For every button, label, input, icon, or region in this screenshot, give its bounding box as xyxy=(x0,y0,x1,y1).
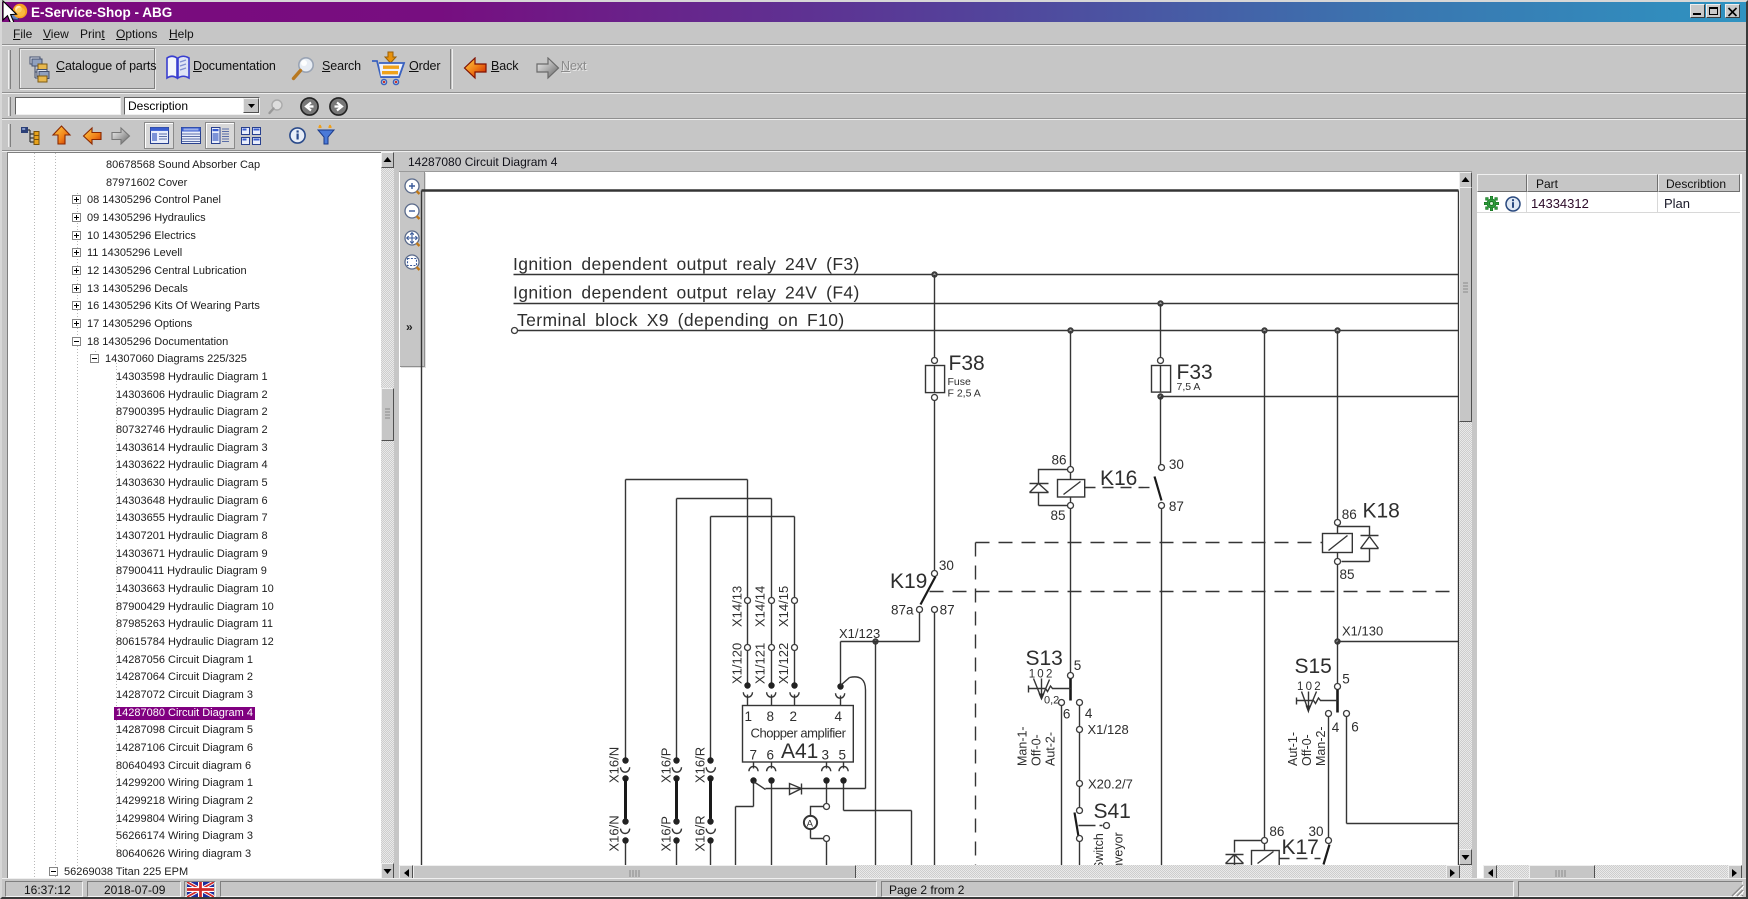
wire F33 output to right edge xyxy=(1161,396,1459,398)
relay coil K17 with suppressor diode xyxy=(1226,824,1319,866)
svg-text:K16: K16 xyxy=(1100,467,1137,490)
node junction F33 on F4 xyxy=(1157,300,1163,306)
connector X1/130 xyxy=(1334,624,1383,645)
svg-text:7: 7 xyxy=(750,748,758,763)
svg-text:Fuse: Fuse xyxy=(948,376,972,388)
svg-text:X1/130: X1/130 xyxy=(1342,624,1383,639)
wire K18 to X1/130 xyxy=(1337,565,1339,639)
mechanical link dashed vertical xyxy=(975,543,977,866)
svg-text:4: 4 xyxy=(1085,706,1093,721)
wire X1/128 to X20.2/7 xyxy=(1079,733,1081,781)
svg-text:X16/R: X16/R xyxy=(692,815,707,851)
wire F4 bus line xyxy=(514,303,1459,305)
left part tree panel xyxy=(7,152,381,879)
svg-text:8: 8 xyxy=(767,709,775,724)
toolbar row 2 xyxy=(2,94,1746,119)
connector X16/N lower xyxy=(607,815,630,851)
svg-text:2: 2 xyxy=(790,709,798,724)
wire F3 to F38 xyxy=(934,275,936,358)
search text input xyxy=(15,97,121,115)
svg-text:X1/122: X1/122 xyxy=(776,643,791,684)
wire X16/P down xyxy=(676,844,678,866)
svg-text:5: 5 xyxy=(839,748,847,763)
view buttons group xyxy=(144,122,174,149)
svg-text:S41: S41 xyxy=(1094,800,1131,823)
connector X1/121 xyxy=(753,643,775,684)
tree structure icon xyxy=(20,126,42,146)
svg-text:Off-0-: Off-0- xyxy=(1030,734,1044,766)
wire A41 pin5 net xyxy=(844,784,912,866)
svg-text:1: 1 xyxy=(1297,681,1303,693)
connector X1/120 xyxy=(729,643,750,684)
connector X16/P lower xyxy=(658,816,681,851)
info icon xyxy=(289,127,306,144)
switch S41 xyxy=(1075,800,1131,883)
connector plug into A41 xyxy=(767,682,776,705)
svg-text:4: 4 xyxy=(1332,720,1340,735)
connector plug A41 bottom pin xyxy=(822,762,831,784)
mechanical link dashed to K18 coil xyxy=(976,542,1323,544)
svg-text:6: 6 xyxy=(1063,707,1071,722)
nav circle fwd xyxy=(329,97,348,116)
diagram frame top border xyxy=(422,189,1459,192)
switch S15 xyxy=(1286,655,1359,766)
splitter xyxy=(394,152,399,879)
diagram horizontal scrollbar xyxy=(399,865,1472,881)
documentation icon xyxy=(165,54,191,82)
connector plug into A41 xyxy=(790,682,799,705)
svg-text:87: 87 xyxy=(1169,499,1184,514)
wire X1/130 to right edge xyxy=(1338,641,1459,643)
wire X9 to K16 coil xyxy=(1070,331,1072,467)
wire X16/P loop to A41 xyxy=(677,498,772,500)
wire K19 pin87 down xyxy=(934,613,936,866)
wire X16/N loop to A41 xyxy=(626,479,748,481)
wire S13 pin6 down xyxy=(1061,706,1063,866)
svg-text:X16/N: X16/N xyxy=(607,747,622,783)
svg-text:Off-0-: Off-0- xyxy=(1300,734,1314,766)
svg-text:Aut-2-: Aut-2- xyxy=(1044,732,1058,766)
wire A41 pin7 nets xyxy=(736,782,766,866)
diode D1 on pin7 line xyxy=(766,784,866,795)
filter funnel icon xyxy=(316,124,336,147)
fuse F38 xyxy=(926,352,985,401)
svg-text:K19: K19 xyxy=(890,570,927,593)
connector X14/13 xyxy=(729,586,750,627)
wire F33 to K16 contact xyxy=(1160,397,1162,465)
svg-text:0: 0 xyxy=(1306,681,1312,693)
connector plug A41 bottom pin xyxy=(839,762,848,784)
gear icon xyxy=(1484,196,1499,211)
white canvas xyxy=(399,172,1459,865)
connector plug A41 bottom pin xyxy=(767,762,776,784)
connector X16/R upper xyxy=(692,747,715,783)
wire S15 pin6 to right edge xyxy=(1347,717,1459,824)
svg-text:A41: A41 xyxy=(781,740,818,763)
wire X1/123 horizontal to K19 pin87a xyxy=(841,613,920,642)
svg-text:X16/N: X16/N xyxy=(607,815,622,851)
connector plug into A41 xyxy=(743,682,752,705)
svg-text:86: 86 xyxy=(1342,507,1357,522)
toolbar row 1 xyxy=(2,46,1746,93)
svg-text:0,2: 0,2 xyxy=(1044,695,1059,707)
svg-text:30: 30 xyxy=(939,558,954,573)
svg-text:X1/120: X1/120 xyxy=(729,643,744,684)
relay contact K17 xyxy=(1309,824,1332,865)
wire input X14/15 column xyxy=(794,517,796,683)
connector plug A41 pin4 xyxy=(836,678,850,706)
svg-text:85: 85 xyxy=(1051,508,1066,523)
connector X16/N upper xyxy=(607,747,630,783)
wire K16 contact down xyxy=(1161,509,1163,866)
terminal X9 left end xyxy=(512,328,518,334)
svg-text:Man-1-: Man-1- xyxy=(1016,726,1030,766)
menu bar xyxy=(2,22,1746,45)
svg-text:Ignition dependent output real: Ignition dependent output realy 24V (F3) xyxy=(513,254,860,274)
zoom tool strip xyxy=(400,172,425,367)
svg-text:30: 30 xyxy=(1169,457,1184,472)
mechanical link K16 dashed xyxy=(1085,487,1151,489)
fuse F33 xyxy=(1152,358,1213,394)
svg-text:K17: K17 xyxy=(1282,836,1319,859)
svg-text:1: 1 xyxy=(745,709,753,724)
connector X20.2/7 xyxy=(1077,777,1133,792)
next icon (disabled) xyxy=(535,57,560,81)
svg-text:0: 0 xyxy=(1037,669,1043,681)
svg-text:2: 2 xyxy=(1314,681,1320,693)
nav circle back xyxy=(300,192,600,342)
svg-text:X20.2/7: X20.2/7 xyxy=(1088,777,1133,792)
svg-text:86: 86 xyxy=(1052,453,1067,468)
circuit schematic canvas xyxy=(399,172,1459,865)
node junction K16-coil on X9 xyxy=(1067,327,1073,333)
relay contact K19 xyxy=(890,558,955,618)
diagram frame right border xyxy=(1458,191,1460,866)
wire X9 bus line xyxy=(518,330,1459,332)
node junction F38 on F3 xyxy=(931,271,937,277)
svg-text:7,5 A: 7,5 A xyxy=(1177,381,1201,393)
wire pin4 elbow to diode row xyxy=(850,677,866,789)
svg-text:30: 30 xyxy=(1309,824,1324,839)
wire A41 pin3 to ammeter xyxy=(826,784,828,804)
svg-text:X16/P: X16/P xyxy=(658,816,673,851)
wire S13 pin4 to X1/128 xyxy=(1079,706,1081,727)
connector X14/15 xyxy=(776,586,798,627)
diagram header strip xyxy=(399,152,1472,172)
tree scrollbar xyxy=(381,152,394,879)
op-amp A41 chopper amplifier xyxy=(743,706,854,764)
svg-text:F 2,5 A: F 2,5 A xyxy=(948,388,981,400)
connector X14/14 xyxy=(753,586,775,627)
svg-text:Aut-1-: Aut-1- xyxy=(1286,732,1300,766)
right panel h-scrollbar xyxy=(1483,865,1742,881)
wire X9 to K18 xyxy=(1337,331,1339,520)
node junction K18-coil on X9 xyxy=(1334,327,1340,333)
wire X16/N down xyxy=(625,844,627,866)
svg-text:6: 6 xyxy=(1351,719,1359,734)
description combobox xyxy=(124,97,260,115)
svg-text:S13: S13 xyxy=(1026,647,1063,670)
svg-text:X14/14: X14/14 xyxy=(753,586,768,627)
mechanical link K17 dashed xyxy=(1279,858,1321,860)
svg-text:X14/15: X14/15 xyxy=(776,586,791,627)
status bar xyxy=(2,878,1746,897)
wire A41 pin4 to X1/123 xyxy=(840,642,842,684)
right arrow gray xyxy=(110,126,131,146)
wire X1/130 to S15 xyxy=(1337,642,1339,684)
relay coil K18 with suppressor diode xyxy=(1323,500,1400,583)
toolbar row 3 xyxy=(2,120,1746,151)
connector X1/123 xyxy=(839,626,880,645)
svg-text:X16/P: X16/P xyxy=(658,748,673,783)
left arrow orange xyxy=(82,126,103,146)
wire X16/P middle bold xyxy=(675,779,678,819)
info icon xyxy=(1505,196,1521,212)
wire K16 coil to S13 xyxy=(1070,509,1072,673)
connector X1/122 xyxy=(776,643,798,684)
mouse cursor xyxy=(0,0,24,28)
svg-text:K18: K18 xyxy=(1363,500,1400,523)
wire X16/R down xyxy=(710,844,712,866)
svg-text:4: 4 xyxy=(835,709,843,724)
right panel xyxy=(1477,152,1742,879)
wire F4 to F33 xyxy=(1160,304,1162,358)
order (cart) icon xyxy=(370,51,408,87)
svg-text:conveyor: conveyor xyxy=(1112,832,1126,865)
svg-text:2: 2 xyxy=(1046,669,1052,681)
svg-text:X16/R: X16/R xyxy=(692,747,707,783)
svg-text:X14/13: X14/13 xyxy=(729,586,744,627)
catalogue button outline xyxy=(19,48,155,89)
wire X16/N middle bold xyxy=(624,779,627,819)
table header xyxy=(1477,174,1527,192)
diagram frame left border xyxy=(421,191,423,866)
svg-text:3: 3 xyxy=(822,748,830,763)
svg-text:X1/128: X1/128 xyxy=(1088,722,1129,737)
switch S13 xyxy=(1016,647,1093,766)
wire X20.2/7 to S41 xyxy=(1079,787,1081,808)
wire F3 bus line xyxy=(514,274,1459,276)
wire X1/123 down xyxy=(875,642,877,866)
wire input X14/13 column xyxy=(747,480,749,683)
catalogue icon xyxy=(29,56,55,83)
node junction F33 output xyxy=(1157,393,1163,399)
wire F38 to K19 pin30 xyxy=(934,401,936,571)
wire X9 to K17 coil xyxy=(1264,331,1266,838)
svg-text:A: A xyxy=(807,819,814,830)
svg-text:Chopper amplifier: Chopper amplifier xyxy=(751,726,847,741)
svg-text:6: 6 xyxy=(767,748,775,763)
wire S41 down xyxy=(1079,842,1081,866)
svg-text:5: 5 xyxy=(1074,658,1082,673)
small magnifier (disabled) xyxy=(267,98,285,116)
svg-text:87: 87 xyxy=(940,603,955,618)
up arrow orange xyxy=(51,125,72,146)
svg-text:X1/121: X1/121 xyxy=(753,643,768,684)
svg-text:Terminal block X9 (depending o: Terminal block X9 (depending on F10) xyxy=(517,310,845,330)
svg-text:5: 5 xyxy=(1342,672,1350,687)
connector X1/128 xyxy=(1077,722,1129,737)
search icon xyxy=(291,101,292,102)
svg-text:Man-2-: Man-2- xyxy=(1314,726,1328,766)
svg-text:F38: F38 xyxy=(949,352,985,375)
table row xyxy=(1477,192,1740,213)
svg-text:87a: 87a xyxy=(891,603,914,618)
node junction K17-coil on X9 xyxy=(1261,327,1267,333)
wire ammeter down xyxy=(826,842,828,866)
wire input X14/14 column xyxy=(771,499,773,683)
connector X16/R lower xyxy=(692,815,715,851)
svg-text:85: 85 xyxy=(1340,567,1355,582)
svg-text:S15: S15 xyxy=(1295,655,1332,678)
title bar xyxy=(2,2,1746,22)
mechanical link dashed from K19 xyxy=(930,591,1459,593)
svg-text:Ignition dependent output rela: Ignition dependent output relay 24V (F4) xyxy=(513,283,860,303)
relay contact K16 xyxy=(1155,457,1184,514)
back icon xyxy=(463,57,488,81)
ammeter P1 xyxy=(804,804,830,842)
wire X16/R loop to A41 xyxy=(711,516,795,518)
connector X16/P upper xyxy=(658,748,681,783)
wire A41 pin6 down xyxy=(771,784,773,866)
svg-text:Switch: Switch xyxy=(1092,833,1106,865)
wire S15 pin4 to K17 contact xyxy=(1328,717,1330,838)
wire X16/R middle bold xyxy=(709,779,712,819)
diagram vertical scrollbar xyxy=(1459,172,1472,865)
connector plug A41 bottom pin xyxy=(749,762,758,784)
relay coil K16 with suppressor diode xyxy=(1030,453,1085,524)
